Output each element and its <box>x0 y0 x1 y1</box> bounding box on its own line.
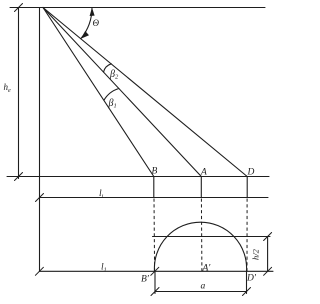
dashed projection line A to A' <box>200 199 203 272</box>
tick at B' on bottom line <box>151 267 159 275</box>
top horizon line <box>10 7 265 9</box>
left vertical extension line h <box>18 8 20 179</box>
tick at left end of a line <box>151 288 159 296</box>
extension line below B' <box>154 271 156 293</box>
extension segment B to l_i line <box>153 177 155 198</box>
arrowhead theta arc top <box>90 8 95 17</box>
dashed projection line D to D' <box>246 199 248 272</box>
bottom base line through B' A' D' <box>39 270 273 272</box>
svg-text:B: B <box>152 167 158 177</box>
svg-text:A′: A′ <box>202 264 212 274</box>
tick at left end of bottom line <box>35 267 43 275</box>
main vertical line under apex <box>39 8 41 272</box>
vertical dimension line h/2 <box>267 237 269 272</box>
tick at bottom of h/2 line <box>264 267 272 275</box>
ray from apex to A <box>43 8 201 177</box>
chord line at curve half height <box>153 236 271 238</box>
tick at bottom of h dimension <box>15 173 23 181</box>
beta1 angle arc <box>104 89 119 101</box>
tick at left end of l_i line <box>36 194 44 202</box>
svg-text:D′: D′ <box>246 274 257 284</box>
svg-text:A: A <box>200 168 207 178</box>
svg-text:B′: B′ <box>141 275 150 285</box>
svg-text:Θ: Θ <box>93 18 100 28</box>
tick at top of h/2 line <box>264 233 272 241</box>
signal hump curve B' A' D' <box>154 222 246 271</box>
ray from apex to D <box>43 8 247 177</box>
extension segment D to l_i line <box>246 177 248 198</box>
svg-text:a: a <box>201 282 206 292</box>
dimension line l_i <box>40 197 269 199</box>
tick at top of h dimension <box>15 4 23 12</box>
svg-text:h/2: h/2 <box>251 248 261 260</box>
tick at right end of a line <box>243 288 251 296</box>
beta2 angle arc <box>104 64 112 72</box>
extension segment A to l_i line <box>200 177 202 198</box>
ray from apex to B <box>43 8 154 177</box>
extension line below D' <box>246 271 248 293</box>
arrowhead theta arc bottom <box>81 31 89 39</box>
dimension line a <box>155 291 247 293</box>
dashed projection line B to B' <box>153 199 156 272</box>
svg-text:D: D <box>247 168 255 178</box>
theta angle arc <box>81 8 92 39</box>
ground line through B A D <box>7 176 269 178</box>
